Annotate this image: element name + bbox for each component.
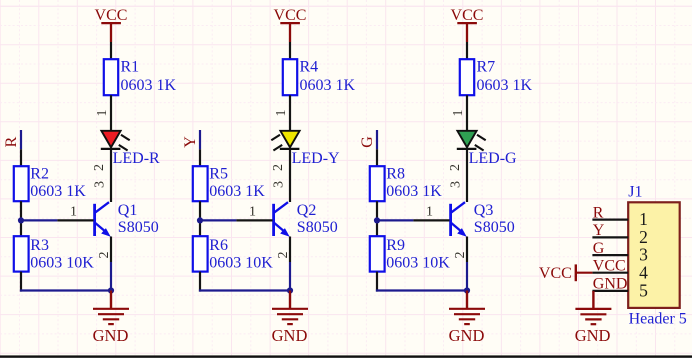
svg-text:0603 10K: 0603 10K	[30, 254, 94, 271]
svg-text:1: 1	[249, 205, 256, 220]
svg-text:R9: R9	[386, 237, 405, 254]
svg-text:0603 10K: 0603 10K	[386, 254, 450, 271]
svg-text:R: R	[3, 136, 20, 147]
svg-text:VCC: VCC	[451, 7, 484, 24]
svg-text:1: 1	[426, 205, 433, 220]
svg-text:Y: Y	[593, 222, 605, 239]
svg-text:R: R	[593, 204, 604, 221]
svg-text:3: 3	[449, 181, 464, 188]
svg-text:R1: R1	[121, 59, 140, 76]
svg-text:LED-Y: LED-Y	[292, 150, 340, 167]
svg-text:1: 1	[451, 110, 466, 117]
svg-text:G: G	[593, 240, 605, 257]
svg-text:R4: R4	[300, 59, 319, 76]
svg-text:VCC: VCC	[593, 257, 626, 274]
svg-text:2: 2	[271, 164, 286, 171]
svg-text:S8050: S8050	[118, 219, 159, 236]
svg-text:VCC: VCC	[539, 265, 572, 282]
svg-text:5: 5	[639, 281, 648, 301]
svg-text:2: 2	[276, 252, 291, 259]
svg-text:4: 4	[639, 262, 648, 282]
svg-text:Header 5: Header 5	[629, 310, 687, 327]
svg-text:S8050: S8050	[297, 219, 338, 236]
svg-text:R7: R7	[477, 59, 496, 76]
svg-text:LED-R: LED-R	[113, 150, 160, 167]
svg-text:R3: R3	[30, 237, 49, 254]
svg-text:G: G	[359, 136, 376, 148]
svg-text:R8: R8	[386, 165, 405, 182]
svg-text:S8050: S8050	[474, 219, 515, 236]
svg-text:LED-G: LED-G	[469, 150, 517, 167]
svg-text:0603 1K: 0603 1K	[300, 77, 356, 94]
svg-text:1: 1	[70, 205, 77, 220]
svg-text:R6: R6	[209, 237, 228, 254]
svg-text:GND: GND	[93, 326, 129, 345]
svg-text:R5: R5	[209, 165, 228, 182]
svg-text:Q2: Q2	[297, 202, 317, 219]
svg-text:R2: R2	[30, 165, 49, 182]
svg-text:0603 1K: 0603 1K	[121, 77, 177, 94]
svg-text:Q3: Q3	[474, 202, 494, 219]
svg-text:GND: GND	[272, 326, 308, 345]
svg-text:2: 2	[453, 252, 468, 259]
svg-text:GND: GND	[575, 326, 611, 345]
svg-text:Y: Y	[182, 136, 199, 148]
svg-text:VCC: VCC	[274, 7, 307, 24]
svg-text:0603 1K: 0603 1K	[477, 77, 533, 94]
svg-text:GND: GND	[593, 276, 628, 293]
svg-text:0603 1K: 0603 1K	[386, 183, 442, 200]
svg-text:Q1: Q1	[118, 202, 138, 219]
svg-text:0603 1K: 0603 1K	[209, 183, 265, 200]
svg-text:1: 1	[274, 110, 289, 117]
svg-text:2: 2	[92, 164, 107, 171]
svg-text:J1: J1	[628, 184, 642, 201]
svg-text:2: 2	[97, 252, 112, 259]
svg-text:0603 1K: 0603 1K	[30, 183, 86, 200]
svg-text:0603 10K: 0603 10K	[209, 254, 273, 271]
svg-text:3: 3	[93, 181, 108, 188]
svg-text:2: 2	[448, 164, 463, 171]
svg-text:GND: GND	[449, 326, 485, 345]
svg-text:3: 3	[272, 181, 287, 188]
svg-text:1: 1	[95, 110, 110, 117]
svg-text:VCC: VCC	[95, 7, 128, 24]
